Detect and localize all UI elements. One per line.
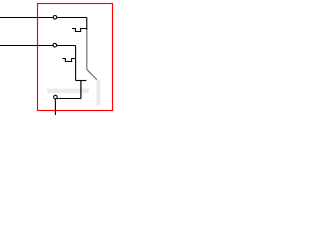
breaker handle bar (light horizontal band) xyxy=(47,89,89,94)
wire: input L2 (middle) xyxy=(0,45,76,47)
wire: pole 1 down segment xyxy=(86,18,88,31)
wire: output drop xyxy=(80,81,82,99)
terminal circle T2 xyxy=(53,43,57,47)
selection box (red) xyxy=(38,4,113,111)
breaker handle stem (light vertical band) xyxy=(97,80,101,106)
wire: pole 2 down segment xyxy=(75,46,77,81)
wire: output down to edge xyxy=(54,97,56,115)
wire: output bottom run xyxy=(55,98,81,100)
terminal circle T3 xyxy=(54,95,58,99)
wire: contact bar xyxy=(76,80,87,82)
thermal release pole 2 (square-wave) xyxy=(63,59,76,62)
terminal circle T1 xyxy=(53,15,57,19)
switch blade (gray diagonal) xyxy=(87,70,97,80)
wire: input L1 (top) xyxy=(0,17,87,19)
operating lever (gray vertical) xyxy=(86,30,88,70)
thermal release pole 1 (square-wave) xyxy=(72,29,87,32)
